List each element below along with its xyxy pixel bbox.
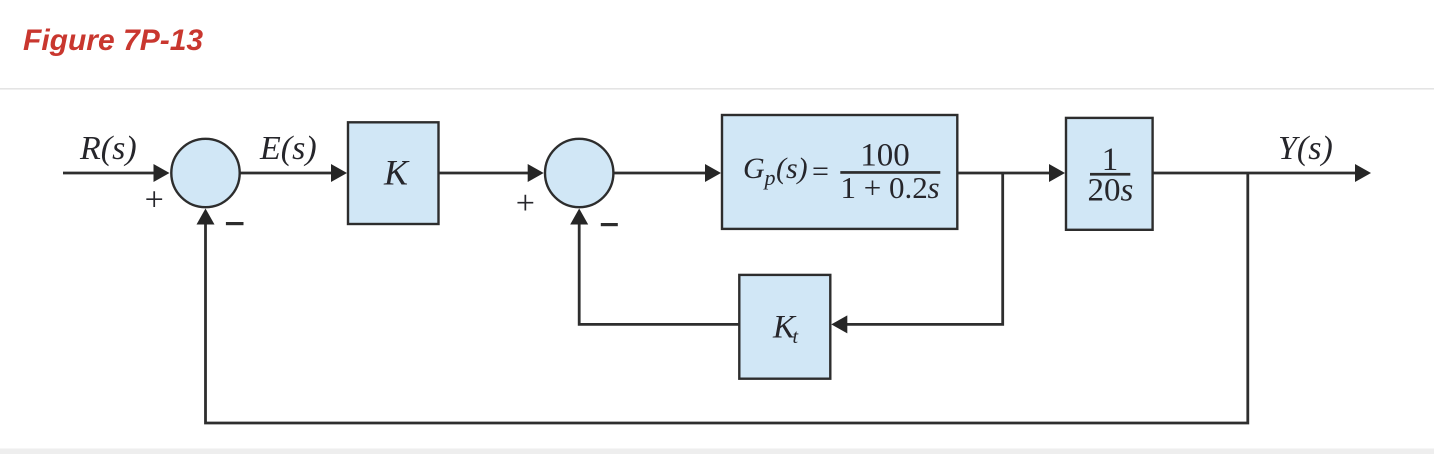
- svg-text:1 + 0.2: 1 + 0.2: [841, 170, 928, 205]
- svg-text:=: =: [812, 155, 829, 188]
- top rule: [0, 88, 1434, 90]
- block Gp: [722, 115, 957, 229]
- wire inner takeoff down from node: [847, 173, 1003, 324]
- arrowhead output Y(s): [1355, 164, 1371, 182]
- svg-text:K: K: [383, 153, 410, 193]
- svg-text:t: t: [793, 326, 799, 348]
- svg-text:+: +: [145, 182, 164, 219]
- arrowhead into summing2: [528, 164, 544, 182]
- svg-text:Y(s): Y(s): [1278, 130, 1333, 167]
- svg-text:20: 20: [1088, 172, 1121, 208]
- svg-text:+: +: [516, 185, 535, 222]
- block Kt: [739, 275, 830, 379]
- wire Kt to summing2: [579, 225, 739, 325]
- wire R(s) input: [63, 172, 154, 175]
- svg-text:E(s): E(s): [259, 130, 317, 167]
- arrowhead into 1/20s: [1049, 164, 1065, 182]
- wire K to summing2: [439, 172, 530, 175]
- svg-text:s: s: [928, 170, 940, 205]
- bottom band: [0, 449, 1434, 454]
- summing junction 2: [545, 139, 613, 207]
- block 1/20s: [1066, 118, 1153, 230]
- block K: [348, 122, 439, 224]
- Gp fraction bar: [840, 171, 940, 174]
- arrowhead into K: [331, 164, 347, 182]
- wire outer feedback loop: [206, 173, 1248, 423]
- sign minus at summing2: [601, 223, 618, 226]
- arrowhead up into summing2: [570, 209, 588, 225]
- 1/20s fraction bar: [1090, 173, 1130, 176]
- summing junction 1: [171, 139, 239, 207]
- wire Gp to 1/20s: [957, 172, 1051, 175]
- svg-text:G: G: [743, 152, 765, 185]
- arrowhead up into summing1: [197, 209, 215, 225]
- arrowhead into summing1: [154, 164, 170, 182]
- sign minus at summing1: [226, 222, 244, 225]
- arrowhead into Kt: [831, 315, 847, 333]
- wire summing2 to Gp: [614, 172, 707, 175]
- svg-text:R(s): R(s): [79, 130, 137, 167]
- wire summing1 to K: [240, 172, 333, 175]
- arrowhead into Gp: [705, 164, 721, 182]
- svg-text:(s): (s): [776, 152, 808, 185]
- svg-text:p: p: [763, 165, 776, 190]
- svg-text:100: 100: [860, 138, 910, 174]
- svg-text:s: s: [1121, 172, 1134, 208]
- wire output Y(s): [1153, 172, 1356, 175]
- svg-text:Figure 7P-13: Figure 7P-13: [23, 24, 203, 57]
